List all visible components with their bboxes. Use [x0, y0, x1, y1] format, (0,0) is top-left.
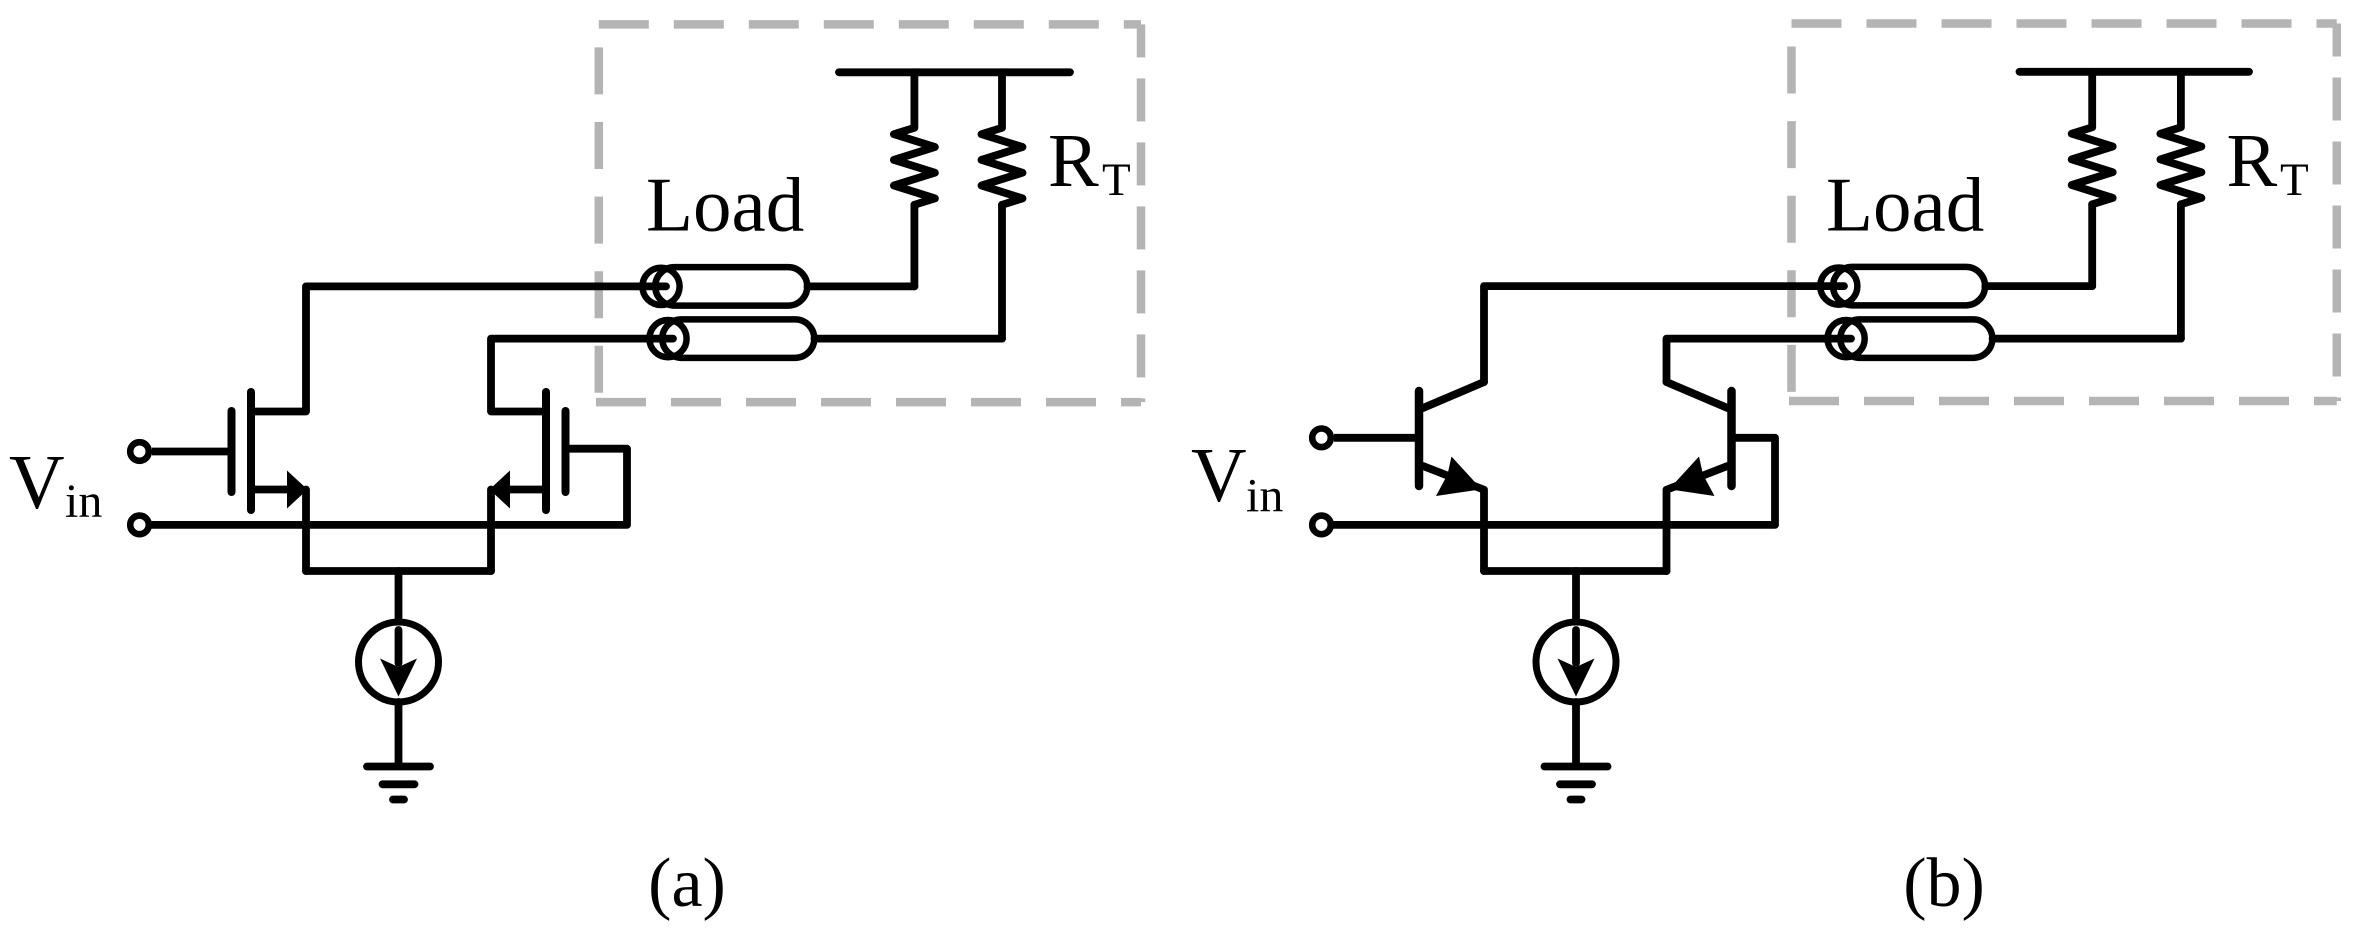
transmission line lower (b) — [1828, 319, 1993, 358]
wire lower TL left to M2 drain (a) — [491, 339, 673, 412]
arrow M2 source — [490, 471, 511, 509]
resistor RT2a — [982, 72, 1023, 205]
wire Vin- to M2 gate (a) — [152, 449, 627, 525]
wire resistor RT2a bottom lead — [998, 205, 1006, 339]
resistor RT2b — [2160, 72, 2201, 205]
wire M1 source to bus — [302, 490, 310, 572]
svg-text:R: R — [1048, 119, 1099, 203]
wire resistor RT2b bottom lead — [2177, 204, 2185, 338]
Load dashed box (b) — [1789, 24, 2337, 402]
input terminal upper (a) — [130, 442, 149, 461]
wire M2 source to bus — [487, 490, 495, 572]
transmission line upper (b) — [1820, 267, 1985, 306]
wire Vin+ to M1 gate (a) — [152, 448, 232, 456]
supply rail (b) — [2020, 68, 2250, 76]
svg-text:T: T — [2280, 154, 2309, 206]
arrow Q1 emitter — [1436, 457, 1482, 497]
wire Vin- to Q2 base (b) — [1334, 438, 1775, 525]
wire resistor RT1a bottom lead — [911, 205, 919, 287]
input terminal lower (b) — [1312, 516, 1331, 535]
transistor Q1 base bar — [1415, 391, 1424, 486]
svg-text:T: T — [1102, 154, 1131, 206]
transistor Q2 base bar — [1727, 391, 1736, 486]
svg-text:Load: Load — [1826, 162, 1984, 248]
wire Q2 collector diagonal — [1667, 382, 1728, 408]
input terminal lower (a) — [130, 516, 149, 535]
arrow M1 source — [287, 471, 308, 509]
svg-text:(a): (a) — [648, 845, 726, 922]
svg-text:V: V — [1191, 432, 1247, 518]
ground (a) — [367, 767, 430, 800]
wire lower TL left to Q2 collector (b) — [1667, 339, 1852, 382]
wire upper TL left to M1 drain (a) — [251, 286, 666, 411]
input terminal upper (b) — [1312, 429, 1331, 448]
svg-text:R: R — [2227, 119, 2278, 203]
transmission line upper (a) — [642, 267, 807, 306]
svg-text:in: in — [65, 475, 102, 528]
wire M1 source lead — [251, 486, 292, 494]
wire Q2 emitter diagonal — [1667, 466, 1728, 571]
wire upper TL right to RT1a — [808, 282, 915, 290]
svg-text:Load: Load — [646, 162, 804, 248]
wire M2 source lead — [505, 486, 546, 494]
wire Vin+ to Q1 base (b) — [1334, 434, 1419, 442]
Load dashed box (a) — [596, 24, 1141, 402]
transistor M1 gate bar — [228, 411, 236, 492]
wire lower TL right to RT2b — [1993, 335, 2181, 343]
svg-text:V: V — [9, 439, 65, 525]
transmission line lower (a) — [649, 319, 814, 358]
wire resistor RT1b bottom lead — [2088, 204, 2096, 286]
supply rail (a) — [839, 68, 1070, 76]
wire source bus (a) — [306, 567, 491, 575]
current source I2 (b) — [1536, 571, 1616, 765]
wire upper TL left to Q1 collector (b) — [1484, 286, 1844, 382]
current source I1 (a) — [359, 571, 439, 765]
svg-text:(b): (b) — [1903, 845, 1985, 922]
resistor RT1a — [894, 72, 935, 205]
transistor M2 channel bar — [542, 392, 550, 510]
arrow Q2 emitter — [1669, 457, 1715, 497]
transistor M1 channel bar — [247, 392, 255, 510]
wire emitter bus (b) — [1484, 567, 1667, 575]
wire lower TL right to RT2a — [815, 335, 1003, 343]
wire upper TL right to RT1b — [1985, 282, 2092, 290]
svg-text:in: in — [1246, 470, 1283, 523]
transistor M2 gate bar — [562, 411, 570, 492]
resistor RT1b — [2072, 72, 2113, 205]
wire Q1 emitter diagonal — [1423, 466, 1484, 571]
ground (b) — [1545, 767, 1608, 800]
wire Q1 collector diagonal — [1423, 382, 1484, 408]
